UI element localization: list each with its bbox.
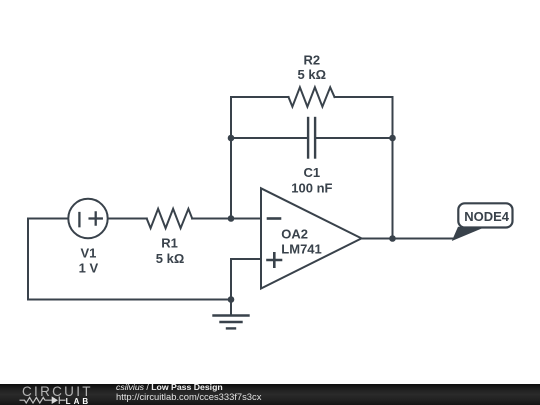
capacitor C1 plates bbox=[308, 118, 315, 158]
svg-text:R1: R1 bbox=[161, 236, 178, 251]
resistor R1 bbox=[147, 209, 193, 228]
wire: V1 left lead to left corner bbox=[28, 218, 68, 220]
svg-text:R2: R2 bbox=[303, 53, 320, 68]
logo circuit line with resistor and diode bbox=[20, 397, 66, 404]
wire: feedback right vertical bbox=[392, 97, 394, 239]
wire: cap branch left bbox=[231, 137, 308, 139]
wire: top left to R2 bbox=[231, 96, 289, 98]
ground bbox=[214, 300, 249, 329]
voltage source V1 bbox=[68, 199, 107, 238]
junction node: cap branch left bbox=[228, 135, 235, 142]
resistor R2 bbox=[289, 87, 335, 106]
node flag NODE4 box bbox=[458, 203, 512, 227]
op-amp minus symbol bbox=[268, 217, 280, 220]
wire: R1 to inverting node bbox=[192, 218, 231, 220]
svg-text:C1: C1 bbox=[303, 165, 320, 180]
svg-text:LAB: LAB bbox=[66, 397, 89, 405]
junction node: ground rail bbox=[228, 296, 235, 303]
svg-text:1 V: 1 V bbox=[79, 260, 99, 275]
svg-text:V1: V1 bbox=[80, 246, 96, 261]
footer bar bbox=[0, 384, 540, 405]
wire: R2 to top right bbox=[335, 96, 393, 98]
svg-text:100 nF: 100 nF bbox=[291, 180, 332, 195]
wire: feedback left vertical bbox=[230, 97, 232, 219]
op-amp plus symbol bbox=[268, 253, 282, 266]
op-amp U1 triangle bbox=[261, 188, 362, 288]
node flag NODE4 tail bbox=[452, 227, 484, 241]
svg-text:http://circuitlab.com/cces333f: http://circuitlab.com/cces333f7s3cx bbox=[116, 391, 262, 402]
wire: plus input down to ground rail bbox=[230, 259, 232, 300]
wire: node to op-amp minus input bbox=[231, 218, 261, 220]
svg-text:NODE4: NODE4 bbox=[464, 209, 510, 224]
wire: left vertical rail bbox=[27, 219, 29, 300]
svg-text:OA2: OA2 bbox=[281, 227, 308, 242]
svg-text:LM741: LM741 bbox=[281, 242, 321, 257]
junction node: cap branch right bbox=[389, 135, 396, 142]
svg-text:5 kΩ: 5 kΩ bbox=[156, 251, 185, 266]
junction node: inverting input bbox=[228, 215, 235, 222]
logo diode triangle bbox=[52, 396, 58, 404]
svg-text:5 kΩ: 5 kΩ bbox=[298, 67, 327, 82]
wire: V1 to R1 bbox=[108, 218, 147, 220]
wire: output bbox=[362, 238, 453, 240]
wire: op-amp plus input bbox=[231, 258, 261, 260]
wire: cap branch right bbox=[315, 137, 393, 139]
wire: bottom rail bbox=[28, 299, 231, 301]
junction node: output/feedback bbox=[389, 235, 396, 242]
